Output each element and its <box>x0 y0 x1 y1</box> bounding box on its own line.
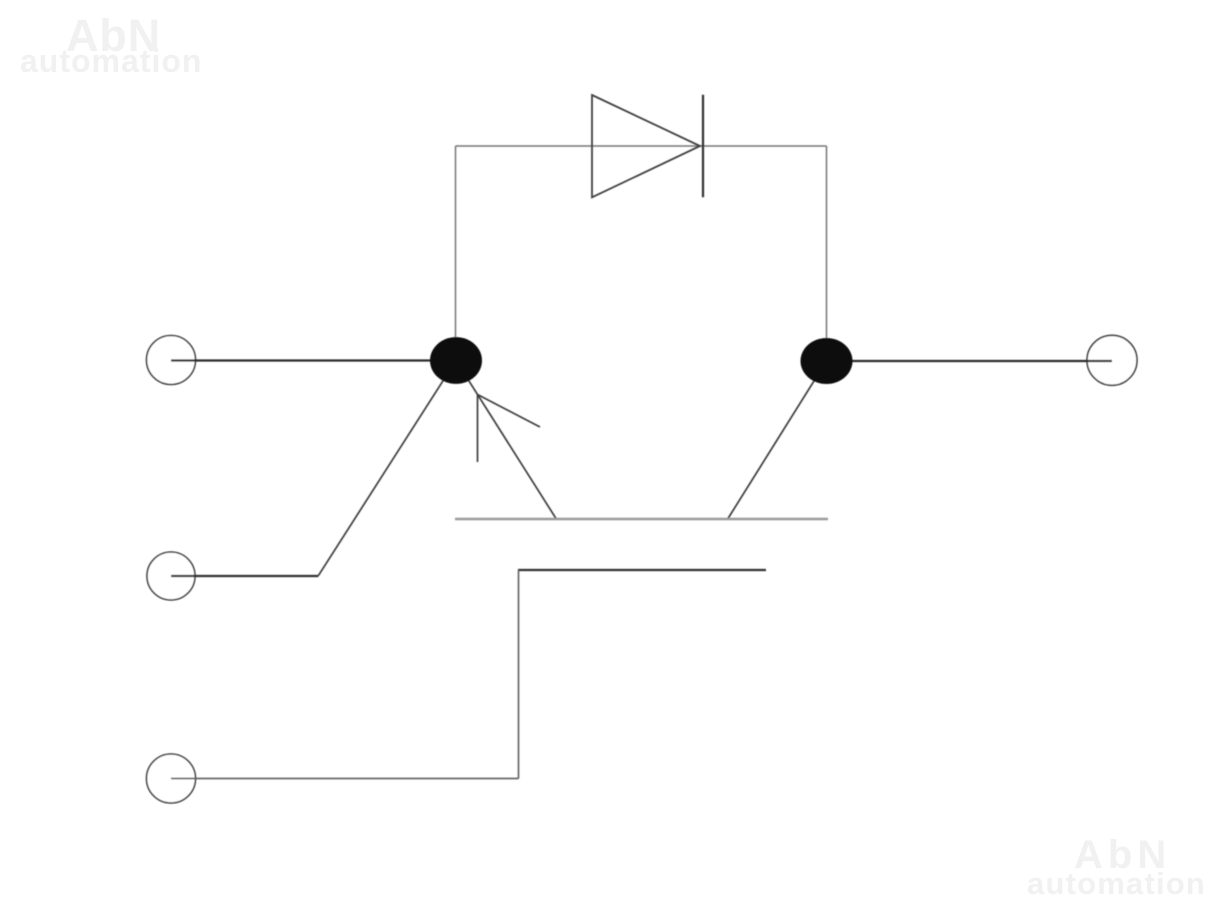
wire: top loop left vertical <box>455 146 457 350</box>
wire: node B to terminal E (right) <box>827 360 1113 362</box>
terminal C (left circle) <box>147 336 196 385</box>
transistor Q1 collector diagonal (arrow shaft) <box>456 361 556 519</box>
wire: terminal G horizontal <box>171 575 318 577</box>
wire: top loop horizontal (anode-cathode bus) <box>456 145 827 147</box>
wire: gate vertical drop <box>518 570 520 779</box>
wire: terminal C to node A <box>171 359 456 361</box>
diode D1 cathode bar <box>702 95 704 198</box>
watermark AbN automation (top-left) <box>20 10 202 79</box>
svg-text:automation: automation <box>1027 866 1206 901</box>
transistor Q1 right diagonal to node B <box>728 361 827 519</box>
terminal E (right circle) <box>1087 335 1137 385</box>
wire: bottom horizontal to gate vertical <box>171 778 519 780</box>
terminal aux (bottom-left circle) <box>147 754 196 803</box>
transistor Q1 channel bar <box>455 518 828 520</box>
wire: top loop right vertical <box>826 146 828 350</box>
terminal G (middle-left circle) <box>147 552 195 600</box>
arrow barb (vertical) <box>477 395 479 463</box>
diode D1 (anti-parallel) triangle <box>592 95 700 197</box>
node B (right junction dot) <box>801 338 853 384</box>
watermark AbN automation (bottom-right) <box>1027 833 1206 901</box>
wire: gate diagonal from node A <box>318 361 456 576</box>
svg-text:automation: automation <box>20 43 202 79</box>
node A (left junction dot) <box>430 337 482 384</box>
arrow barb (diagonal) <box>478 395 541 428</box>
transistor Q1 gate bar <box>518 569 766 571</box>
